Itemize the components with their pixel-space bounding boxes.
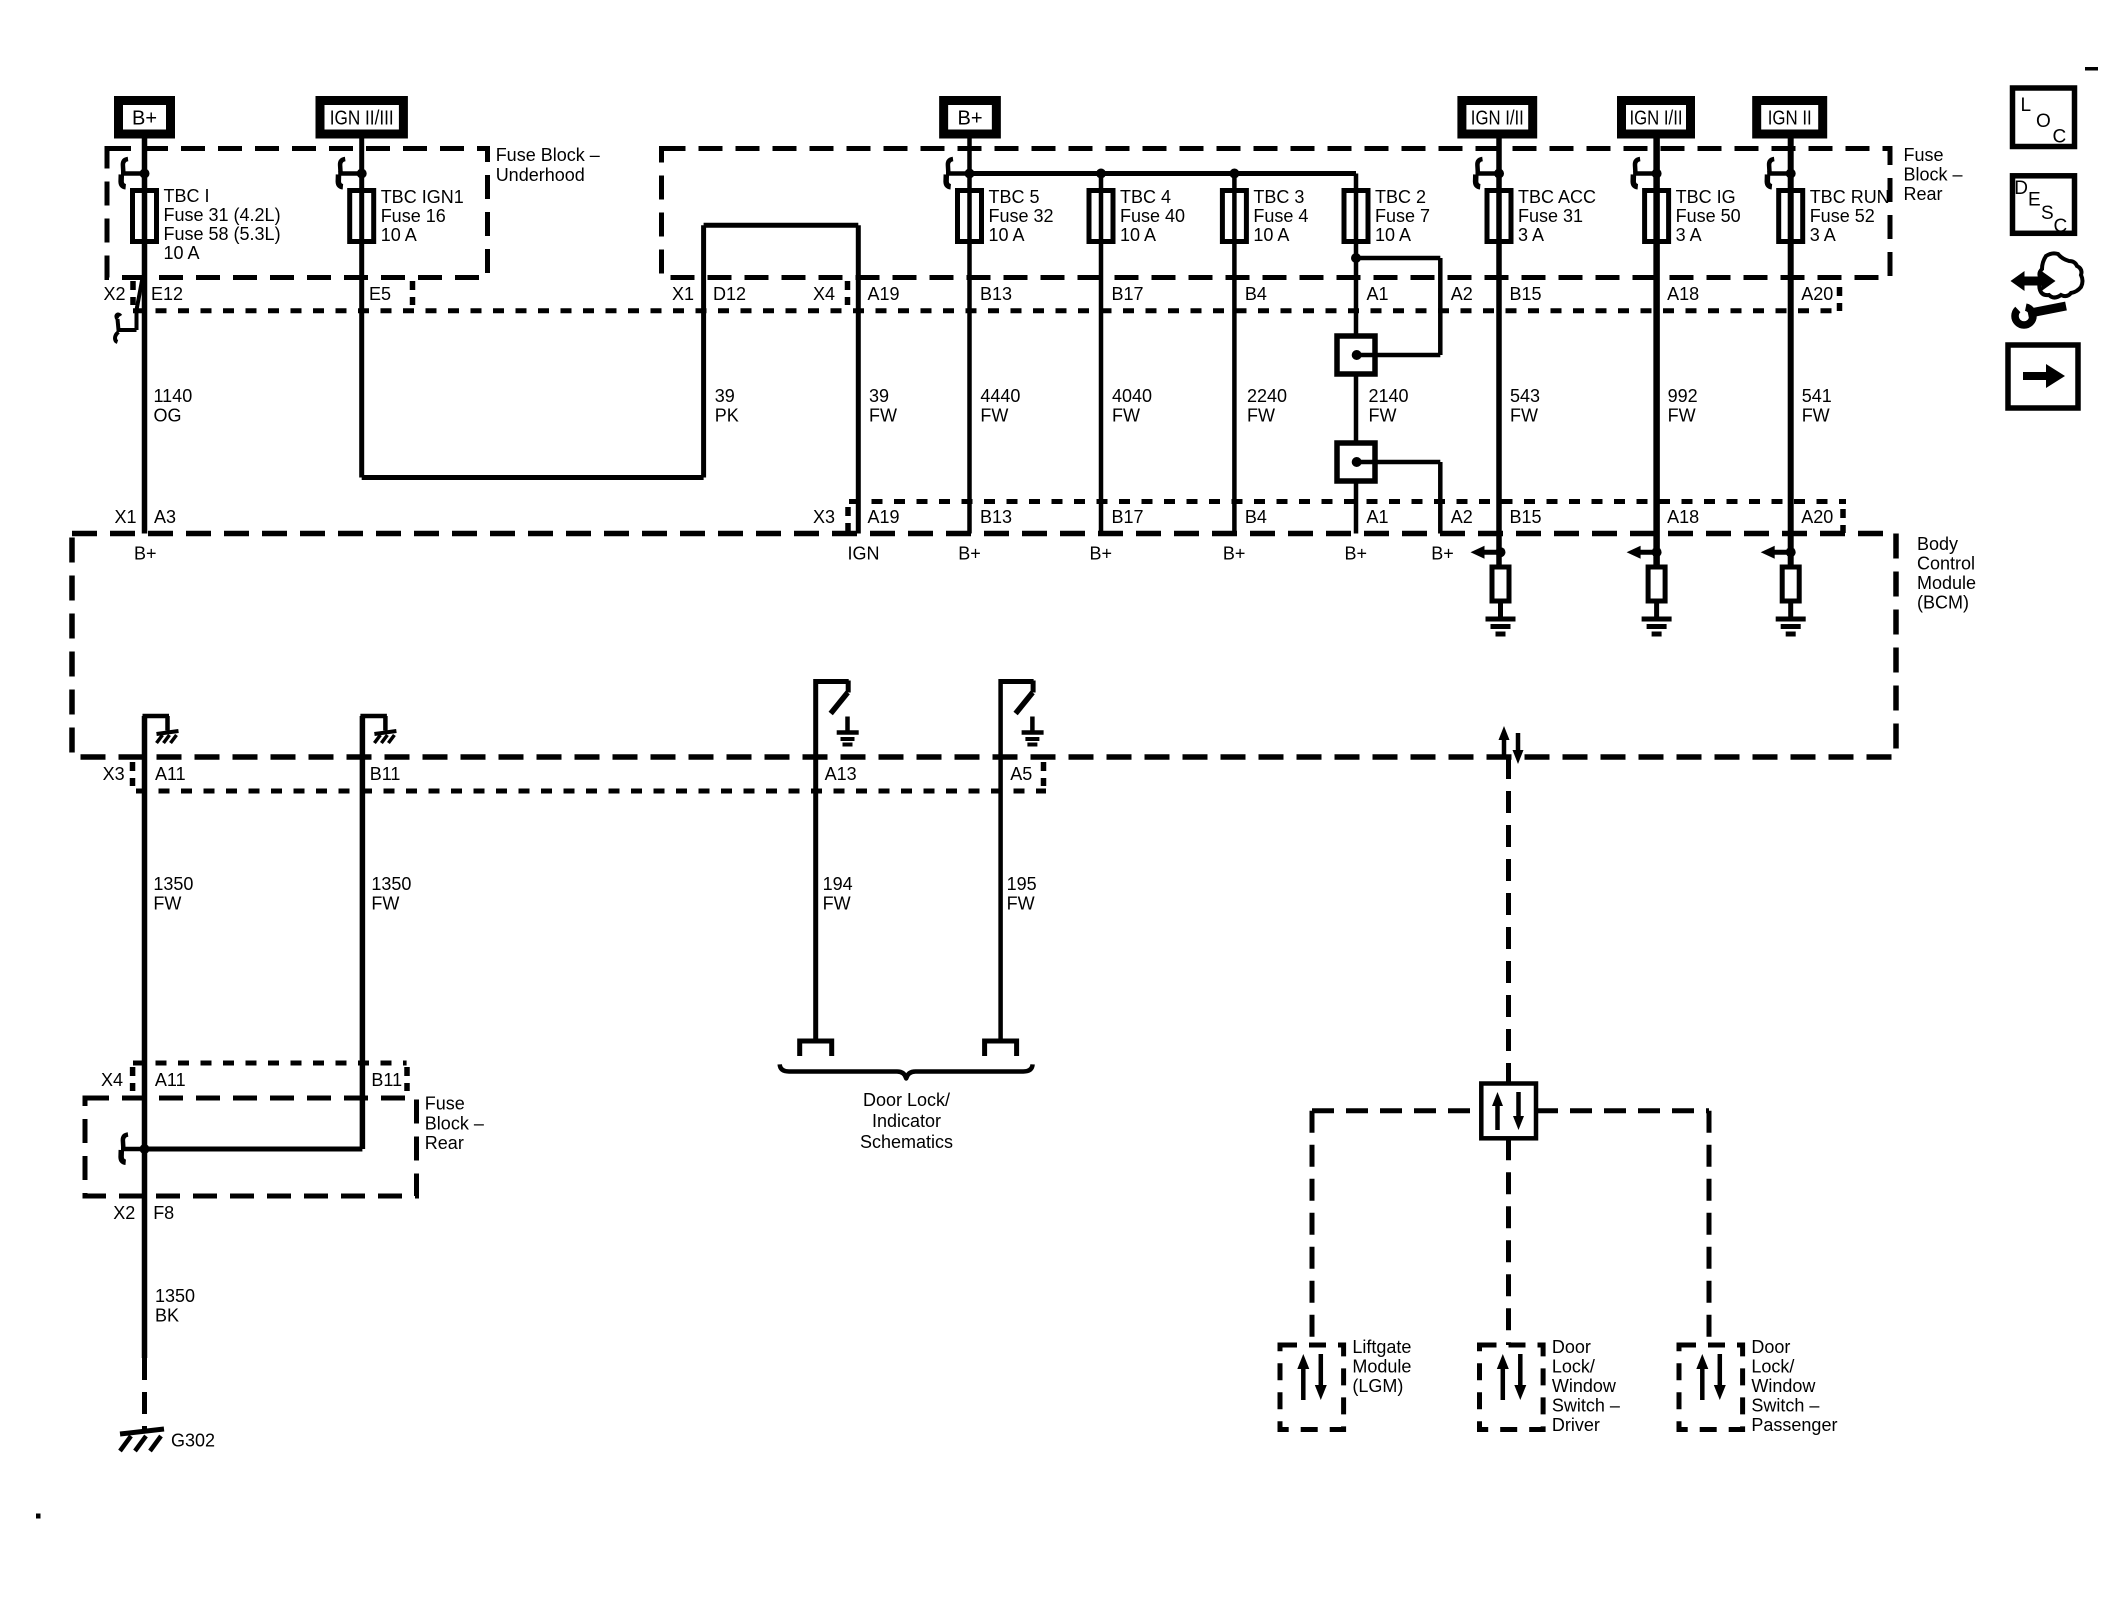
- svg-text:(BCM): (BCM): [1917, 593, 1969, 613]
- svg-text:Liftgate: Liftgate: [1352, 1337, 1411, 1357]
- svg-text:A20: A20: [1801, 284, 1833, 304]
- svg-text:B17: B17: [1112, 507, 1144, 527]
- svg-text:A1: A1: [1367, 284, 1389, 304]
- svg-text:Fuse 40: Fuse 40: [1120, 206, 1185, 226]
- svg-text:FW: FW: [1369, 406, 1397, 426]
- svg-text:Module: Module: [1352, 1357, 1411, 1377]
- svg-text:FW: FW: [980, 406, 1008, 426]
- svg-text:Door Lock/: Door Lock/: [863, 1090, 950, 1110]
- svg-text:Rear: Rear: [1904, 184, 1943, 204]
- svg-text:2240: 2240: [1247, 386, 1287, 406]
- svg-text:1350: 1350: [155, 1286, 195, 1306]
- svg-text:B13: B13: [980, 507, 1012, 527]
- svg-text:TBC 3: TBC 3: [1253, 187, 1304, 207]
- svg-text:Rear: Rear: [425, 1133, 464, 1153]
- svg-text:F8: F8: [153, 1203, 174, 1223]
- svg-text:X1: X1: [672, 284, 694, 304]
- svg-text:Fuse Block –: Fuse Block –: [496, 145, 600, 165]
- svg-text:3 A: 3 A: [1518, 225, 1544, 245]
- svg-text:X2: X2: [103, 284, 125, 304]
- svg-text:3 A: 3 A: [1810, 225, 1836, 245]
- svg-text:B+: B+: [958, 544, 981, 564]
- svg-text:Lock/: Lock/: [1751, 1357, 1794, 1377]
- svg-text:A1: A1: [1367, 507, 1389, 527]
- svg-text:X3: X3: [103, 764, 125, 784]
- svg-text:Fuse 16: Fuse 16: [381, 206, 446, 226]
- svg-text:Window: Window: [1552, 1376, 1617, 1396]
- svg-text:Fuse 31: Fuse 31: [1518, 206, 1583, 226]
- svg-text:10 A: 10 A: [164, 243, 200, 263]
- svg-text:FW: FW: [869, 406, 897, 426]
- svg-text:Fuse 32: Fuse 32: [989, 206, 1054, 226]
- svg-text:B13: B13: [980, 284, 1012, 304]
- svg-text:992: 992: [1668, 386, 1698, 406]
- svg-text:TBC 4: TBC 4: [1120, 187, 1171, 207]
- svg-text:A11: A11: [155, 1070, 186, 1090]
- svg-text:194: 194: [823, 874, 853, 894]
- svg-text:OG: OG: [154, 406, 182, 426]
- svg-text:39: 39: [869, 386, 889, 406]
- svg-text:4440: 4440: [980, 386, 1020, 406]
- svg-text:TBC 5: TBC 5: [989, 187, 1040, 207]
- svg-text:Underhood: Underhood: [496, 165, 585, 185]
- svg-text:2140: 2140: [1369, 386, 1409, 406]
- svg-text:IGN II/III: IGN II/III: [330, 108, 394, 130]
- svg-text:L: L: [2021, 95, 2032, 116]
- svg-text:B+: B+: [134, 544, 157, 564]
- svg-text:A3: A3: [154, 507, 176, 527]
- svg-text:Fuse 7: Fuse 7: [1375, 206, 1430, 226]
- svg-text:Fuse 31 (4.2L): Fuse 31 (4.2L): [164, 205, 281, 225]
- svg-text:TBC 2: TBC 2: [1375, 187, 1426, 207]
- svg-text:FW: FW: [153, 894, 181, 914]
- svg-text:B+: B+: [1090, 544, 1113, 564]
- svg-text:A5: A5: [1010, 764, 1032, 784]
- svg-text:Indicator: Indicator: [872, 1111, 941, 1131]
- svg-text:FW: FW: [371, 894, 399, 914]
- svg-text:B+: B+: [1223, 544, 1246, 564]
- svg-text:Door: Door: [1552, 1337, 1591, 1357]
- svg-text:FW: FW: [1247, 406, 1275, 426]
- svg-text:IGN I/II: IGN I/II: [1471, 108, 1524, 130]
- svg-text:B+: B+: [1345, 544, 1368, 564]
- svg-text:A18: A18: [1667, 284, 1699, 304]
- svg-text:TBC ACC: TBC ACC: [1518, 187, 1596, 207]
- svg-text:TBC IG: TBC IG: [1676, 187, 1736, 207]
- svg-text:39: 39: [715, 386, 735, 406]
- svg-text:Body: Body: [1917, 534, 1958, 554]
- svg-text:FW: FW: [1668, 406, 1696, 426]
- svg-text:Block –: Block –: [1904, 164, 1963, 184]
- svg-text:1140: 1140: [154, 386, 193, 406]
- svg-text:A13: A13: [825, 764, 857, 784]
- svg-text:1350: 1350: [153, 874, 193, 894]
- svg-text:Fuse: Fuse: [425, 1094, 465, 1114]
- svg-text:A20: A20: [1801, 507, 1833, 527]
- svg-text:E5: E5: [369, 284, 391, 304]
- svg-text:G302: G302: [171, 1431, 215, 1451]
- svg-text:Schematics: Schematics: [860, 1132, 953, 1152]
- svg-text:A18: A18: [1667, 507, 1699, 527]
- svg-text:Switch –: Switch –: [1751, 1396, 1819, 1416]
- svg-text:B+: B+: [1431, 544, 1454, 564]
- svg-text:A11: A11: [155, 764, 186, 784]
- svg-text:4040: 4040: [1112, 386, 1152, 406]
- svg-text:Fuse 52: Fuse 52: [1810, 206, 1875, 226]
- svg-text:FW: FW: [1802, 406, 1830, 426]
- svg-text:X4: X4: [813, 284, 835, 304]
- svg-text:B15: B15: [1510, 284, 1542, 304]
- svg-text:10 A: 10 A: [1253, 225, 1289, 245]
- svg-text:Window: Window: [1751, 1376, 1816, 1396]
- svg-text:3 A: 3 A: [1676, 225, 1702, 245]
- svg-text:D12: D12: [713, 284, 746, 304]
- svg-text:A19: A19: [868, 507, 900, 527]
- svg-text:A19: A19: [868, 284, 900, 304]
- svg-text:TBC IGN1: TBC IGN1: [381, 187, 464, 207]
- svg-text:Block –: Block –: [425, 1113, 484, 1133]
- svg-text:1350: 1350: [371, 874, 411, 894]
- svg-text:Control: Control: [1917, 554, 1975, 574]
- svg-text:IGN II: IGN II: [1768, 108, 1812, 130]
- svg-text:Driver: Driver: [1552, 1415, 1600, 1435]
- svg-text:O: O: [2036, 111, 2051, 132]
- svg-text:TBC RUN: TBC RUN: [1810, 187, 1890, 207]
- svg-text:B+: B+: [132, 108, 157, 130]
- svg-text:Lock/: Lock/: [1552, 1357, 1595, 1377]
- svg-text:B11: B11: [370, 764, 401, 784]
- svg-text:10 A: 10 A: [989, 225, 1025, 245]
- svg-text:Fuse 4: Fuse 4: [1253, 206, 1308, 226]
- svg-text:A2: A2: [1451, 284, 1473, 304]
- svg-text:B+: B+: [957, 108, 982, 130]
- svg-text:B11: B11: [371, 1070, 402, 1090]
- svg-text:541: 541: [1802, 386, 1832, 406]
- svg-text:FW: FW: [823, 894, 851, 914]
- svg-text:X3: X3: [813, 507, 835, 527]
- svg-text:FW: FW: [1510, 406, 1538, 426]
- svg-text:10 A: 10 A: [1120, 225, 1156, 245]
- svg-text:B4: B4: [1245, 284, 1267, 304]
- svg-text:B17: B17: [1112, 284, 1144, 304]
- svg-text:10 A: 10 A: [381, 225, 417, 245]
- svg-text:X4: X4: [101, 1070, 123, 1090]
- svg-text:Fuse: Fuse: [1904, 145, 1944, 165]
- svg-text:543: 543: [1510, 386, 1540, 406]
- svg-text:S: S: [2041, 203, 2054, 224]
- svg-text:Switch –: Switch –: [1552, 1396, 1620, 1416]
- svg-text:B15: B15: [1510, 507, 1542, 527]
- svg-text:Fuse 50: Fuse 50: [1676, 206, 1741, 226]
- svg-text:D: D: [2014, 178, 2028, 199]
- svg-text:BK: BK: [155, 1306, 179, 1326]
- svg-text:FW: FW: [1007, 894, 1035, 914]
- svg-text:Module: Module: [1917, 573, 1976, 593]
- svg-text:Door: Door: [1751, 1337, 1790, 1357]
- svg-text:IGN: IGN: [848, 544, 880, 564]
- svg-text:(LGM): (LGM): [1352, 1376, 1403, 1396]
- svg-text:FW: FW: [1112, 406, 1140, 426]
- svg-text:X1: X1: [114, 507, 136, 527]
- svg-text:Passenger: Passenger: [1751, 1415, 1837, 1435]
- svg-text:PK: PK: [715, 406, 739, 426]
- svg-text:X2: X2: [113, 1203, 135, 1223]
- svg-text:C: C: [2053, 127, 2067, 148]
- svg-text:B4: B4: [1245, 507, 1267, 527]
- svg-text:IGN I/II: IGN I/II: [1630, 108, 1683, 130]
- svg-text:C: C: [2054, 216, 2068, 237]
- svg-text:E: E: [2028, 190, 2041, 211]
- svg-text:10 A: 10 A: [1375, 225, 1411, 245]
- svg-text:195: 195: [1007, 874, 1037, 894]
- svg-text:E12: E12: [151, 284, 183, 304]
- svg-text:Fuse 58 (5.3L): Fuse 58 (5.3L): [164, 224, 281, 244]
- svg-text:A2: A2: [1451, 507, 1473, 527]
- svg-text:TBC I: TBC I: [164, 186, 210, 206]
